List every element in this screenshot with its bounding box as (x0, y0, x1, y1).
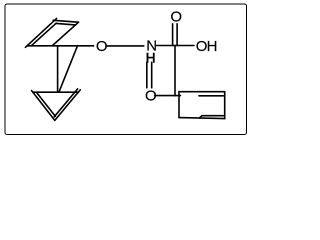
tick joining bottom inner line to bottom edge (200, 116, 203, 118)
cyclobutadiene right ring bottom inner double line (202, 115, 223, 117)
carbonyl C=O double bond left line (172, 24, 174, 46)
wire baseline C4a-C(O) horizontal (27, 45, 94, 47)
cyclobutadiene ring top edge double bond outer (53, 20, 78, 22)
svg-text:O: O (145, 87, 157, 104)
wire vertical to cyclopropene (57, 46, 59, 92)
cyclopropene triangle left edge double inner (36, 92, 55, 116)
N=O double bond right line (151, 62, 153, 88)
cyclobutadiene right ring left edge (178, 92, 180, 118)
border frame (5, 4, 247, 135)
svg-text:H: H (146, 50, 156, 65)
wire O_left to N (106, 45, 144, 47)
wire N to carboxyl C to OH (157, 45, 195, 47)
cyclobutadiene right ring top edge (179, 91, 225, 93)
carbonyl C=O double bond right line (176, 24, 178, 46)
N=O double bond left line (146, 62, 148, 88)
cyclopropene triangle right edge double inner (54, 89, 77, 117)
cyclobutadiene ring left edge double bond outer (25, 18, 56, 47)
svg-text:O: O (170, 9, 182, 26)
cyclobutadiene ring top edge double bond inner (56, 23, 75, 25)
cyclopropene triangle top edge (33, 91, 79, 93)
wire diagonal to cyclopropene (59, 46, 78, 93)
svg-text:H: H (207, 38, 218, 55)
cyclobutadiene ring right edge (53, 22, 79, 45)
svg-text:O: O (96, 38, 108, 55)
cyclobutadiene ring left edge double bond inner (31, 23, 56, 46)
wire carboxyl C down to ring junction (174, 46, 176, 96)
cyclobutadiene right ring bottom edge (179, 118, 225, 119)
wire O_bottom to ring junction (155, 95, 181, 97)
cyclobutadiene right ring top inner double line (199, 95, 224, 97)
cyclobutadiene right ring right edge (224, 92, 226, 119)
cyclopropene triangle right edge double outer (55, 90, 81, 121)
cyclopropene triangle left edge double outer (32, 91, 55, 121)
